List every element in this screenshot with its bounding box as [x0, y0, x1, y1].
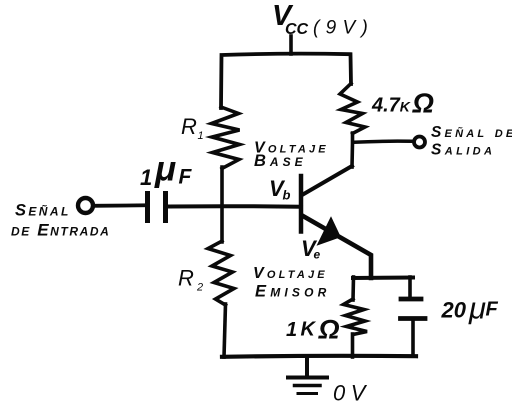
- svg-text:Señal: Señal: [15, 202, 71, 220]
- svg-text:K: K: [301, 319, 317, 341]
- svg-text:e: e: [314, 248, 321, 262]
- svg-text:Salida: Salida: [431, 142, 495, 159]
- svg-text:Voltaje: Voltaje: [253, 265, 328, 282]
- svg-text:μ: μ: [154, 150, 176, 189]
- svg-text:1: 1: [286, 319, 297, 341]
- svg-text:μ: μ: [468, 291, 486, 326]
- svg-text:Emisor: Emisor: [255, 283, 331, 301]
- svg-text:(9V): (9V): [313, 18, 374, 39]
- svg-text:Señal de: Señal de: [431, 124, 512, 141]
- svg-text:R: R: [178, 266, 194, 291]
- svg-text:Ω: Ω: [318, 315, 340, 345]
- svg-text:Ω: Ω: [412, 88, 434, 119]
- svg-text:de Entrada: de Entrada: [11, 221, 110, 240]
- svg-text:20: 20: [441, 298, 467, 323]
- svg-text:2: 2: [196, 282, 203, 294]
- svg-text:b: b: [283, 188, 291, 203]
- svg-text:1: 1: [140, 165, 152, 190]
- svg-text:0V: 0V: [333, 381, 371, 406]
- svg-text:R: R: [181, 114, 197, 139]
- svg-text:1: 1: [198, 130, 204, 142]
- svg-text:Base: Base: [254, 152, 307, 170]
- svg-text:F: F: [179, 166, 193, 189]
- svg-text:4.7k: 4.7k: [371, 95, 411, 117]
- svg-text:F: F: [486, 299, 499, 321]
- svg-text:CC: CC: [285, 21, 309, 38]
